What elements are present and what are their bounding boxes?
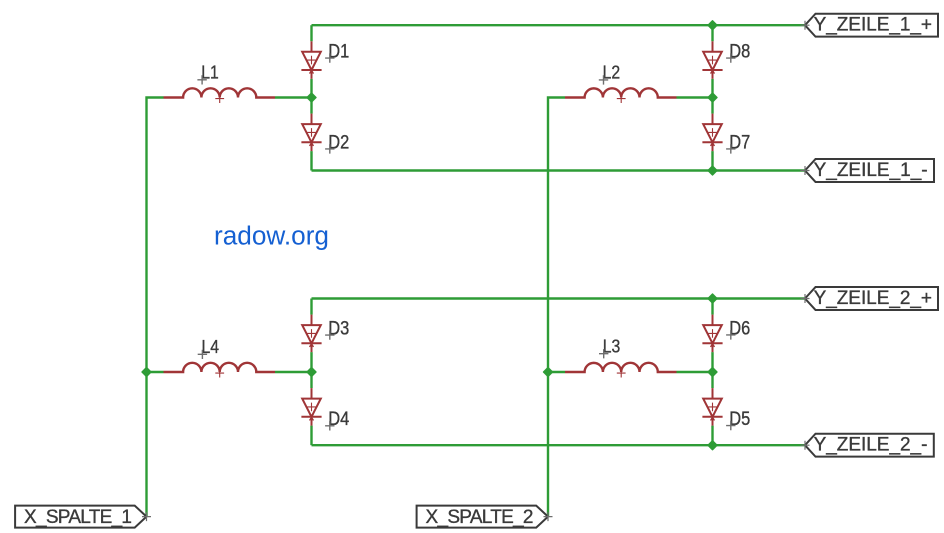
inductor L3: [565, 363, 677, 372]
wire D8 pins lower green segment: [711, 79, 713, 98]
diode D7: [712, 114, 714, 125]
junction X_SPALTE_2/L3: [544, 368, 553, 377]
wire D7 pins upper green segment: [711, 98, 713, 114]
svg-text:X_SPALTE_2: X_SPALTE_2: [426, 507, 534, 528]
svg-text:D7: D7: [729, 132, 750, 153]
junction L4/D3/D4: [307, 368, 316, 377]
diode D3: [311, 315, 313, 326]
wire net X_SPALTE_1 vertical: [147, 98, 164, 517]
junction L2/D8/D7: [708, 93, 717, 102]
net flag Y_ZEILE_2_-: [805, 434, 934, 457]
junction L3/D6/D5: [708, 368, 717, 377]
wire net Y_ZEILE_2_+ horizontal: [312, 297, 806, 299]
junction D5/Y_ZEILE_2_-: [708, 441, 717, 450]
svg-text:Y_ZEILE_2_+: Y_ZEILE_2_+: [814, 288, 932, 309]
diode D1: [311, 41, 313, 52]
wire D4 pins lower green segment: [310, 426, 312, 446]
svg-text:Y_ZEILE_1_-: Y_ZEILE_1_-: [814, 160, 928, 181]
net flag X_SPALTE_2: [417, 506, 548, 528]
svg-text:Y_ZEILE_2_-: Y_ZEILE_2_-: [814, 435, 928, 456]
wire L2 right pin to D8/D7 node: [677, 96, 713, 98]
inductor L1: [164, 88, 276, 97]
junction L1/D1/D2: [307, 93, 316, 102]
wire D5 pins upper green segment: [711, 372, 713, 388]
wire D7 pins lower green segment: [711, 151, 713, 170]
wire L3 right pin to D5/D6 node: [677, 371, 713, 373]
diode D6: [712, 315, 714, 326]
wire net Y_ZEILE_2_- horizontal: [312, 444, 806, 446]
junction D7/Y_ZEILE_1_-: [708, 166, 717, 175]
svg-text:D4: D4: [328, 409, 349, 430]
diode D2: [311, 114, 313, 125]
net flag Y_ZEILE_2_+: [805, 287, 938, 310]
wire net Y_ZEILE_1_- horizontal: [312, 169, 806, 171]
diode D8: [712, 41, 714, 52]
net flag Y_ZEILE_1_-: [805, 159, 934, 182]
diode D4: [311, 388, 313, 399]
svg-text:X_SPALTE_1: X_SPALTE_1: [24, 507, 132, 528]
wire net Y_ZEILE_1_+ top horizontal: [312, 24, 806, 26]
svg-text:D2: D2: [328, 132, 349, 153]
diode D5: [712, 388, 714, 399]
wire D1 pins upper green segment: [310, 25, 312, 41]
svg-text:D8: D8: [729, 42, 750, 63]
wire D6 pins lower green segment: [711, 352, 713, 372]
wire D6 pins upper green segment: [711, 299, 713, 315]
svg-text:radow.org: radow.org: [214, 222, 329, 250]
svg-text:D1: D1: [328, 42, 349, 63]
net flag X_SPALTE_1: [15, 506, 146, 528]
wire D8 pins upper green segment: [711, 25, 713, 41]
junction D6/Y_ZEILE_2_+: [708, 294, 717, 303]
inductor L2: [565, 88, 677, 97]
svg-text:D3: D3: [328, 319, 349, 340]
wire X_SPALTE_1 to L4 left pin: [147, 371, 164, 373]
wire L4 right pin to D3/D4 node: [275, 371, 312, 373]
wire D3 pins lower green segment: [310, 352, 312, 372]
wire net X_SPALTE_2 vertical: [548, 98, 565, 517]
wire D1 pins lower green segment: [310, 79, 312, 98]
wire D3 pins upper green segment: [310, 299, 312, 315]
net flag Y_ZEILE_1_+: [805, 14, 938, 37]
inductor L4: [164, 363, 276, 372]
junction X_SPALTE_1/L4: [142, 368, 151, 377]
svg-text:D6: D6: [729, 318, 750, 339]
svg-text:Y_ZEILE_1_+: Y_ZEILE_1_+: [814, 15, 932, 36]
wire X_SPALTE_2 to L3 left pin: [548, 371, 565, 373]
svg-text:D5: D5: [729, 409, 750, 430]
wire D2 pins lower green segment: [310, 151, 312, 170]
wire D5 pins lower green segment: [711, 426, 713, 446]
wire D4 pins upper green segment: [310, 372, 312, 388]
wire D2 pins upper green segment: [310, 98, 312, 114]
junction D8/Y_ZEILE_1_+: [708, 21, 717, 30]
wire L1 right pin to D1/D2 node: [275, 96, 312, 98]
